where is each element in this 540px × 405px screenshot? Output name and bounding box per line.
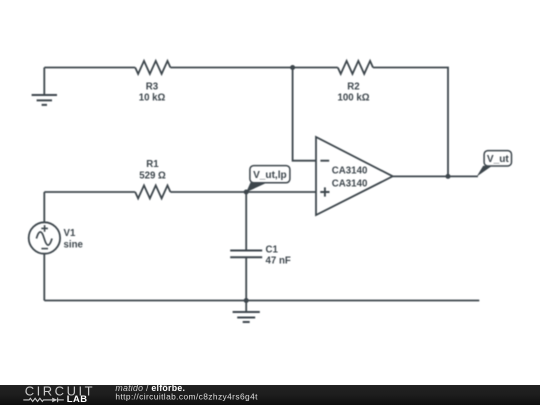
wire node A down to op-amp inverting input <box>293 68 316 161</box>
wire R1 rail left (V1 to R1) <box>44 191 135 193</box>
wire R1 to node V_ut,lp to op-amp non-inverting input <box>170 191 316 193</box>
resistor R1 <box>135 185 170 198</box>
node junction dot V_ut,lp <box>244 190 249 195</box>
flag V_ut,lp pointer wedge <box>246 183 267 193</box>
op-amp inverting - symbol <box>320 160 329 162</box>
wire R3 to node A to R2 <box>170 67 337 69</box>
flag V_ut,lp box <box>250 166 290 183</box>
voltage source V1 circle <box>29 222 60 253</box>
flag V_ut box <box>484 151 511 166</box>
svg-text:http://circuitlab.com/c8zhzy4r: http://circuitlab.com/c8zhzy4rs6g4t <box>115 391 258 401</box>
ground GND1 bars <box>32 95 57 105</box>
wire node V_ut,lp down to C1 <box>245 192 247 250</box>
wire V1 top lead <box>43 192 45 222</box>
node junction dot output <box>446 174 451 179</box>
resistor R3 <box>135 61 170 74</box>
op-amp non-inverting + symbol <box>320 187 329 196</box>
V1 minus sign <box>41 248 48 250</box>
svg-text:LAB: LAB <box>67 393 88 404</box>
ground GND1 stub <box>43 68 45 96</box>
wire R2 right, corner down to output node <box>373 68 448 177</box>
node junction dot A (R3/R2/op-amp) <box>290 65 295 70</box>
wire op-amp output to V_ut flag <box>393 175 478 177</box>
node junction dot bottom rail / C1 / GND2 <box>244 298 249 303</box>
op-amp U1 triangle <box>316 137 393 215</box>
resistor R2 <box>338 61 373 74</box>
footer bar <box>0 385 540 405</box>
wire top rail left (GND1 to R3) <box>44 67 135 69</box>
wire C1 bottom to bottom rail <box>245 257 247 300</box>
V1 plus sign <box>41 225 48 232</box>
wire bottom rail <box>44 300 479 302</box>
capacitor C1 plates <box>230 251 262 258</box>
wire V1 bottom lead <box>43 254 45 301</box>
V1 sine glyph <box>36 232 52 245</box>
CircuitLab logo resistor-diode icon <box>23 398 64 403</box>
ground GND2 stub <box>245 301 247 313</box>
ground GND2 bars <box>233 312 260 322</box>
flag V_ut pointer wedge <box>477 166 493 177</box>
